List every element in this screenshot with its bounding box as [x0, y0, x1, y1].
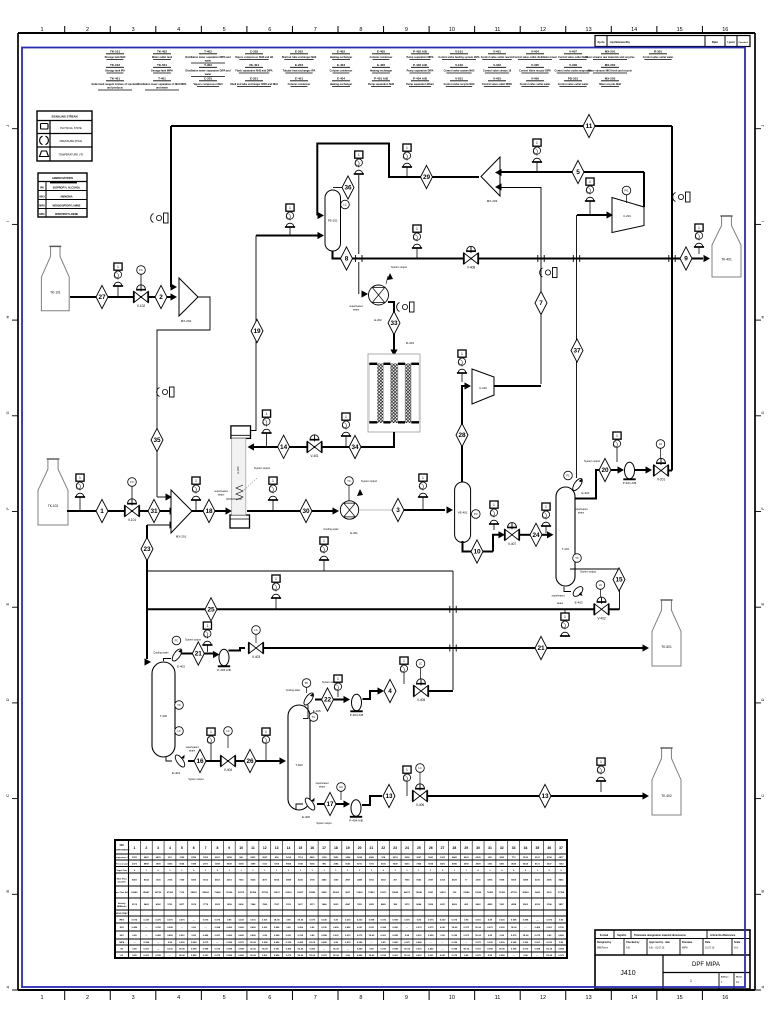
svg-text:MX-202: MX-202 — [181, 319, 192, 323]
svg-text:22: 22 — [324, 697, 332, 704]
svg-text:0.998: 0.998 — [523, 920, 529, 922]
svg-text:1: 1 — [210, 730, 212, 734]
svg-text:25: 25 — [417, 846, 421, 850]
svg-text:---: --- — [204, 927, 206, 929]
svg-text:MX-203: MX-203 — [605, 77, 616, 81]
instrument stack x338 — [334, 675, 342, 682]
svg-text:0.230: 0.230 — [499, 942, 505, 944]
svg-text:7851: 7851 — [357, 904, 363, 906]
svg-text:LC: LC — [599, 583, 602, 587]
svg-text:System output: System output — [316, 822, 332, 825]
stream diamond 4 — [384, 679, 396, 702]
svg-text:6874: 6874 — [488, 879, 494, 882]
svg-text:1417: 1417 — [298, 903, 304, 906]
svg-text:11: 11 — [495, 995, 501, 1001]
wire P-404 to V-406 stream 13 — [362, 796, 382, 805]
svg-text:0.998: 0.998 — [511, 920, 517, 922]
svg-text:22: 22 — [381, 846, 385, 850]
svg-text:52586: 52586 — [309, 892, 316, 894]
stream diamond 13 repeat — [539, 784, 551, 807]
svg-text:0.998: 0.998 — [262, 942, 268, 944]
jump x453 on y648 — [449, 645, 451, 652]
svg-text:12: 12 — [540, 995, 546, 1001]
svg-text:12: 12 — [263, 846, 267, 850]
instrument stack x565 below line — [564, 610, 566, 614]
svg-text:1698: 1698 — [215, 863, 221, 865]
svg-text:Column condenser: Column condenser — [330, 70, 353, 73]
svg-text:P-404 A/B: P-404 A/B — [413, 77, 428, 81]
svg-text:I: I — [760, 221, 765, 222]
svg-text:V-404: V-404 — [531, 50, 539, 54]
svg-text:---: --- — [193, 920, 195, 922]
mixer MX-203 — [481, 157, 500, 196]
svg-text:6001: 6001 — [215, 857, 221, 859]
wire stream 3 to VE-401 — [404, 509, 445, 511]
svg-text:2: 2 — [86, 995, 89, 1001]
svg-text:8006: 8006 — [239, 904, 245, 906]
svg-text:LC: LC — [659, 442, 662, 446]
svg-text:0.075: 0.075 — [215, 920, 221, 922]
svg-text:---: --- — [406, 927, 408, 929]
svg-text:MM.Pérez: MM.Pérez — [597, 947, 609, 950]
instrument stack x290 — [286, 204, 294, 211]
svg-text:J: J — [5, 125, 10, 127]
svg-text:V-401: V-401 — [493, 50, 501, 54]
stream diamond 27 — [96, 285, 108, 308]
svg-text:5119: 5119 — [286, 904, 292, 906]
svg-text:27: 27 — [441, 846, 445, 850]
svg-text:2: 2 — [86, 27, 89, 33]
svg-text:0.456: 0.456 — [250, 934, 256, 937]
svg-text:74389: 74389 — [463, 891, 470, 894]
instrument stack x266b — [262, 728, 270, 735]
svg-text:Designed by: Designed by — [597, 941, 612, 944]
svg-text:8121: 8121 — [535, 863, 541, 865]
svg-text:0.075: 0.075 — [203, 942, 209, 944]
svg-text:V-401: V-401 — [310, 454, 319, 458]
svg-text:21: 21 — [195, 651, 203, 658]
svg-text:E-403: E-403 — [575, 601, 583, 605]
svg-text:I pend: I pend — [727, 41, 735, 44]
instrument stack x494 — [490, 501, 498, 508]
svg-text:27356: 27356 — [558, 892, 565, 894]
svg-text:Pump separation DIPA: Pump separation DIPA — [407, 70, 434, 73]
svg-text:0.230: 0.230 — [499, 927, 505, 929]
svg-text:Activity: Activity — [118, 902, 126, 905]
svg-text:E-201: E-201 — [250, 77, 258, 81]
wire recycle down to MX-202 — [170, 126, 172, 287]
instrument stack x207 — [203, 622, 211, 629]
svg-text:5064: 5064 — [179, 862, 185, 865]
svg-text:8: 8 — [216, 846, 218, 850]
svg-text:Column condenser: Column condenser — [370, 56, 393, 59]
instrument stack x462 — [458, 350, 466, 357]
svg-text:16: 16 — [310, 846, 314, 850]
svg-text:3527: 3527 — [262, 857, 268, 859]
jump at x672 on y258 — [668, 255, 670, 262]
svg-text:MIPA: MIPA — [682, 947, 688, 950]
svg-text:7880: 7880 — [262, 904, 268, 906]
svg-text:5: 5 — [223, 27, 226, 33]
svg-text:1E-06: 1E-06 — [369, 955, 376, 957]
svg-text:FC: FC — [130, 480, 134, 484]
svg-text:superheated: superheated — [186, 746, 199, 749]
wire FE-201 bottoms stream 8 line y258 — [333, 251, 704, 259]
wire MX-202 outlet to stream 35 — [157, 297, 210, 497]
svg-text:0.001: 0.001 — [262, 955, 268, 957]
svg-text:3: 3 — [132, 27, 135, 33]
svg-text:35: 35 — [535, 846, 539, 850]
svg-text:TK-402: TK-402 — [157, 50, 167, 54]
svg-text:V-201: V-201 — [657, 478, 666, 482]
stream diamond 17 — [324, 792, 336, 815]
svg-text:1351: 1351 — [488, 863, 494, 865]
svg-text:---: --- — [133, 942, 135, 944]
svg-text:0.075: 0.075 — [535, 935, 541, 937]
svg-text:1E-06: 1E-06 — [297, 949, 304, 951]
svg-text:0.456: 0.456 — [416, 941, 422, 944]
svg-text:1: 1 — [698, 226, 700, 230]
svg-text:8: 8 — [359, 995, 362, 1001]
instrument stack x407 — [403, 766, 411, 773]
stream diamond 37 — [571, 339, 583, 362]
svg-text:0.075: 0.075 — [215, 955, 221, 957]
svg-text:4929: 4929 — [511, 862, 517, 865]
svg-text:0.001: 0.001 — [416, 949, 422, 951]
svg-text:0.998: 0.998 — [144, 942, 150, 944]
svg-text:MIPA: MIPA — [39, 205, 45, 208]
svg-text:Mass Flow lb/hr: Mass Flow lb/hr — [114, 892, 129, 894]
condenser E-402 — [164, 659, 172, 662]
svg-text:0.998: 0.998 — [369, 920, 375, 922]
svg-text:1E-06: 1E-06 — [274, 920, 281, 922]
svg-text:steam: steam — [578, 512, 584, 515]
svg-text:0.001: 0.001 — [215, 935, 221, 937]
svg-text:---: --- — [145, 927, 147, 929]
stream diamond 16 — [194, 749, 206, 772]
svg-text:0.075: 0.075 — [321, 955, 327, 957]
svg-text:Control valve outlet distillat: Control valve outlet distillation tower — [513, 56, 557, 59]
spec break on line 35 — [170, 387, 175, 397]
stream diamond 2 — [155, 285, 167, 308]
svg-text:B: B — [760, 890, 765, 893]
svg-text:6861: 6861 — [310, 857, 316, 859]
svg-text:2038: 2038 — [405, 857, 411, 859]
svg-text:7778: 7778 — [203, 904, 209, 906]
svg-text:0.230: 0.230 — [452, 935, 458, 937]
svg-text:LC: LC — [419, 662, 422, 666]
svg-text:0.456: 0.456 — [226, 934, 232, 937]
stream diamond 8 — [341, 247, 353, 270]
svg-text:0.456: 0.456 — [203, 934, 209, 937]
stream data table — [115, 840, 567, 958]
svg-text:1E-06: 1E-06 — [511, 927, 518, 929]
svg-text:A.B.: A.B. — [626, 947, 631, 950]
svg-text:1: 1 — [416, 227, 418, 231]
svg-text:6174: 6174 — [132, 903, 138, 906]
compressor C-202 — [472, 369, 494, 404]
title block drawing number J410 — [662, 955, 664, 989]
svg-text:10: 10 — [473, 549, 481, 556]
svg-text:17: 17 — [326, 801, 334, 808]
svg-text:Control valve outlet MIPA: Control valve outlet MIPA — [482, 83, 512, 86]
svg-text:9130: 9130 — [523, 857, 529, 859]
svg-text:Pump separation NH3: Pump separation NH3 — [368, 83, 395, 86]
svg-text:14: 14 — [631, 995, 637, 1001]
svg-text:0.001: 0.001 — [475, 920, 481, 922]
svg-text:PC: PC — [566, 474, 570, 478]
svg-text:0.230: 0.230 — [155, 955, 161, 957]
svg-text:9274: 9274 — [393, 856, 399, 859]
svg-text:16: 16 — [196, 758, 204, 765]
svg-text:0.075: 0.075 — [155, 920, 161, 922]
svg-text:A: A — [760, 985, 765, 988]
wire VE-401 overhead riser stream 28 — [462, 386, 468, 482]
svg-text:9316: 9316 — [547, 892, 553, 894]
svg-text:0.998: 0.998 — [428, 935, 434, 937]
pump P-404 — [351, 800, 361, 817]
svg-text:10: 10 — [449, 995, 455, 1001]
svg-text:TEMPERATURE (°F): TEMPERATURE (°F) — [59, 153, 84, 157]
legend temperature symbol — [40, 151, 49, 157]
svg-text:0.998: 0.998 — [381, 927, 387, 929]
svg-text:0.075: 0.075 — [215, 949, 221, 951]
svg-text:Checked by: Checked by — [626, 941, 640, 944]
svg-text:6877: 6877 — [559, 857, 565, 859]
svg-text:0.075: 0.075 — [132, 920, 138, 922]
svg-text:1E-06: 1E-06 — [297, 920, 304, 922]
svg-text:V-403: V-403 — [252, 655, 261, 659]
svg-text:---: --- — [441, 942, 443, 944]
svg-text:3667: 3667 — [416, 857, 422, 859]
svg-text:1E-06: 1E-06 — [250, 955, 257, 957]
svg-text:TK-101: TK-101 — [110, 50, 120, 54]
svg-text:6243: 6243 — [298, 879, 304, 882]
svg-text:0.998: 0.998 — [226, 955, 232, 957]
svg-text:MMBtu/hr: MMBtu/hr — [117, 905, 127, 908]
instrument stack x537 — [533, 139, 541, 146]
svg-text:1E-06: 1E-06 — [463, 949, 470, 951]
svg-text:44671: 44671 — [404, 891, 411, 894]
svg-text:37: 37 — [559, 846, 563, 850]
svg-text:DIPA: DIPA — [39, 213, 45, 216]
svg-text:2482: 2482 — [322, 879, 328, 882]
svg-text:9368: 9368 — [239, 863, 245, 865]
wire T-401 overhead side to stream 15 — [570, 569, 620, 610]
svg-text:0.001: 0.001 — [274, 949, 280, 951]
stream diamond 30 — [300, 499, 312, 522]
svg-text:J: J — [760, 125, 765, 127]
stream diamond 22 — [322, 688, 334, 711]
svg-text:0.998: 0.998 — [167, 927, 173, 929]
wire E-201 outlet stream 3 — [359, 509, 392, 511]
svg-text:0.075: 0.075 — [452, 955, 458, 957]
svg-text:3: 3 — [157, 846, 159, 850]
svg-text:10: 10 — [449, 27, 455, 33]
jump and spec at x541 on y258 — [537, 255, 539, 262]
svg-text:0.001: 0.001 — [333, 935, 339, 937]
instrument stack x405 — [403, 144, 411, 151]
svg-text:1038: 1038 — [298, 863, 304, 865]
svg-text:E-201: E-201 — [350, 531, 358, 535]
svg-text:34: 34 — [524, 846, 528, 850]
svg-text:1: 1 — [461, 352, 463, 356]
svg-text:P-401 A/B: P-401 A/B — [623, 481, 637, 485]
svg-text:N.A.: N.A. — [734, 947, 739, 950]
svg-text:3: 3 — [396, 507, 400, 514]
svg-text:COMPONENTE: COMPONENTE — [114, 850, 130, 852]
svg-text:81049: 81049 — [131, 891, 138, 894]
svg-text:0.075: 0.075 — [179, 920, 185, 922]
svg-text:59953: 59953 — [191, 892, 198, 894]
svg-text:0.998: 0.998 — [535, 949, 541, 951]
wire P-402 to V-403 — [229, 648, 246, 651]
svg-text:0.075: 0.075 — [203, 920, 209, 922]
svg-text:Vapors compressor NH3 and H2: Vapors compressor NH3 and H2 — [235, 56, 274, 59]
svg-text:1: 1 — [100, 508, 104, 515]
svg-text:E-406: E-406 — [377, 63, 385, 67]
svg-text:VE-401: VE-401 — [249, 63, 259, 67]
svg-text:V-405: V-405 — [417, 698, 426, 702]
svg-text:V-407: V-407 — [508, 542, 517, 546]
svg-text:0.075: 0.075 — [381, 920, 387, 922]
svg-text:V-406: V-406 — [531, 77, 539, 81]
svg-text:TK-402: TK-402 — [661, 794, 672, 798]
svg-text:C-201: C-201 — [623, 214, 631, 218]
svg-text:8: 8 — [359, 27, 362, 33]
svg-text:and products: and products — [107, 87, 123, 90]
svg-text:4562: 4562 — [215, 879, 221, 882]
svg-text:1: 1 — [195, 479, 197, 483]
stream diamond 21 repeat — [535, 636, 547, 659]
wire FE-201 upper feed loop y144 — [317, 144, 479, 216]
svg-text:Signific.: Signific. — [617, 934, 627, 937]
svg-text:E-402: E-402 — [177, 665, 185, 669]
svg-text:---: --- — [524, 927, 526, 929]
svg-text:5837: 5837 — [559, 904, 565, 906]
svg-text:1: 1 — [289, 206, 291, 210]
svg-text:A.B. - 01.07.16: A.B. - 01.07.16 — [649, 947, 665, 950]
svg-text:73404: 73404 — [214, 891, 221, 894]
svg-text:3: 3 — [132, 995, 135, 1001]
heat exchanger E-203 column — [231, 426, 251, 439]
svg-text:1: 1 — [117, 265, 119, 269]
svg-text:TK-501: TK-501 — [157, 63, 167, 67]
svg-text:T-402: T-402 — [160, 714, 168, 718]
svg-text:Control valve outlet water: Control valve outlet water — [520, 83, 551, 86]
svg-text:1: 1 — [600, 760, 602, 764]
wire V-201 up riser x672 to top header — [668, 470, 672, 472]
svg-text:steam: steam — [353, 309, 360, 312]
svg-text:System output: System output — [188, 778, 204, 781]
svg-text:27: 27 — [98, 294, 106, 301]
svg-text:T-402: T-402 — [204, 50, 212, 54]
svg-text:---: --- — [157, 942, 159, 944]
svg-text:1: 1 — [40, 995, 43, 1001]
svg-text:V-406: V-406 — [416, 803, 425, 807]
svg-text:MX-202: MX-202 — [605, 63, 616, 67]
svg-text:Heating exchanger: Heating exchanger — [370, 70, 392, 73]
svg-text:0.075: 0.075 — [167, 920, 173, 922]
svg-text:---: --- — [465, 942, 467, 944]
svg-text:0.075: 0.075 — [464, 927, 470, 929]
svg-text:2971: 2971 — [203, 863, 209, 865]
svg-text:3832: 3832 — [381, 880, 387, 882]
svg-text:0.998: 0.998 — [274, 935, 280, 937]
svg-text:Control valve stream 18: Control valve stream 18 — [483, 70, 512, 73]
svg-text:13: 13 — [541, 793, 549, 800]
stream diamond 7 — [535, 291, 547, 314]
instrument stack x211b — [207, 728, 215, 735]
left ruler ticks — [12, 128, 18, 130]
svg-text:0.230: 0.230 — [381, 955, 387, 957]
svg-text:1369: 1369 — [333, 880, 339, 882]
svg-text:MOLE FRAC: MOLE FRAC — [116, 912, 128, 915]
instrument stack x404 — [400, 657, 408, 664]
svg-text:P-401 A/B: P-401 A/B — [374, 77, 389, 81]
svg-text:7: 7 — [539, 300, 543, 307]
svg-text:28: 28 — [453, 846, 457, 850]
wire TK-101 outlet stream 27 — [70, 296, 172, 298]
legend pressure symbol — [40, 136, 49, 144]
svg-text:Storage tank NH3: Storage tank NH3 — [105, 56, 126, 59]
svg-text:9465: 9465 — [452, 856, 458, 859]
svg-text:H: H — [760, 316, 765, 319]
svg-text:TK-401: TK-401 — [110, 77, 120, 81]
svg-text:0.230: 0.230 — [167, 949, 173, 951]
wire main feed line stream 18 — [192, 510, 228, 512]
svg-text:2191: 2191 — [535, 857, 541, 859]
svg-text:5: 5 — [223, 995, 226, 1001]
svg-text:1E-06: 1E-06 — [309, 942, 316, 944]
svg-text:0.001: 0.001 — [392, 955, 398, 957]
svg-text:0.075: 0.075 — [404, 920, 410, 922]
svg-text:V-102: V-102 — [137, 304, 146, 308]
svg-text:MX-201: MX-201 — [605, 50, 616, 54]
svg-text:AMMONIA: AMMONIA — [60, 196, 72, 199]
svg-text:1154: 1154 — [322, 856, 328, 859]
svg-text:8664: 8664 — [416, 903, 422, 906]
svg-text:3384: 3384 — [333, 862, 339, 865]
svg-text:0.230: 0.230 — [155, 927, 161, 929]
svg-text:D: D — [5, 698, 10, 701]
svg-text:36: 36 — [547, 846, 551, 850]
svg-text:2066: 2066 — [547, 880, 553, 882]
svg-text:H: H — [5, 316, 10, 319]
svg-text:0.075: 0.075 — [345, 942, 351, 944]
svg-text:Storage tank MIPA: Storage tank MIPA — [151, 70, 173, 73]
svg-text:0.075: 0.075 — [464, 935, 470, 937]
svg-text:7: 7 — [314, 27, 317, 33]
svg-text:---: --- — [169, 955, 171, 957]
svg-text:E-401: E-401 — [295, 77, 303, 81]
spec at E-202 outlet — [410, 302, 415, 312]
svg-text:6: 6 — [193, 846, 195, 850]
svg-text:70435: 70435 — [487, 891, 494, 894]
svg-text:ABBREVIATIONS: ABBREVIATIONS — [52, 176, 74, 180]
svg-text:0.456: 0.456 — [286, 948, 292, 951]
svg-text:V-407: V-407 — [569, 50, 577, 54]
wire E-404 to T-403 streams 16 26 — [188, 760, 283, 762]
svg-text:23: 23 — [393, 846, 397, 850]
svg-text:0.998: 0.998 — [226, 949, 232, 951]
svg-text:1E-06: 1E-06 — [250, 949, 257, 951]
svg-text:PC: PC — [175, 639, 179, 643]
svg-text:0.075: 0.075 — [416, 927, 422, 929]
wire E-203 to stream 30 and E-201 — [247, 510, 334, 512]
svg-text:1: 1 — [358, 153, 360, 157]
spec break on MX-202 recycle — [164, 213, 169, 223]
